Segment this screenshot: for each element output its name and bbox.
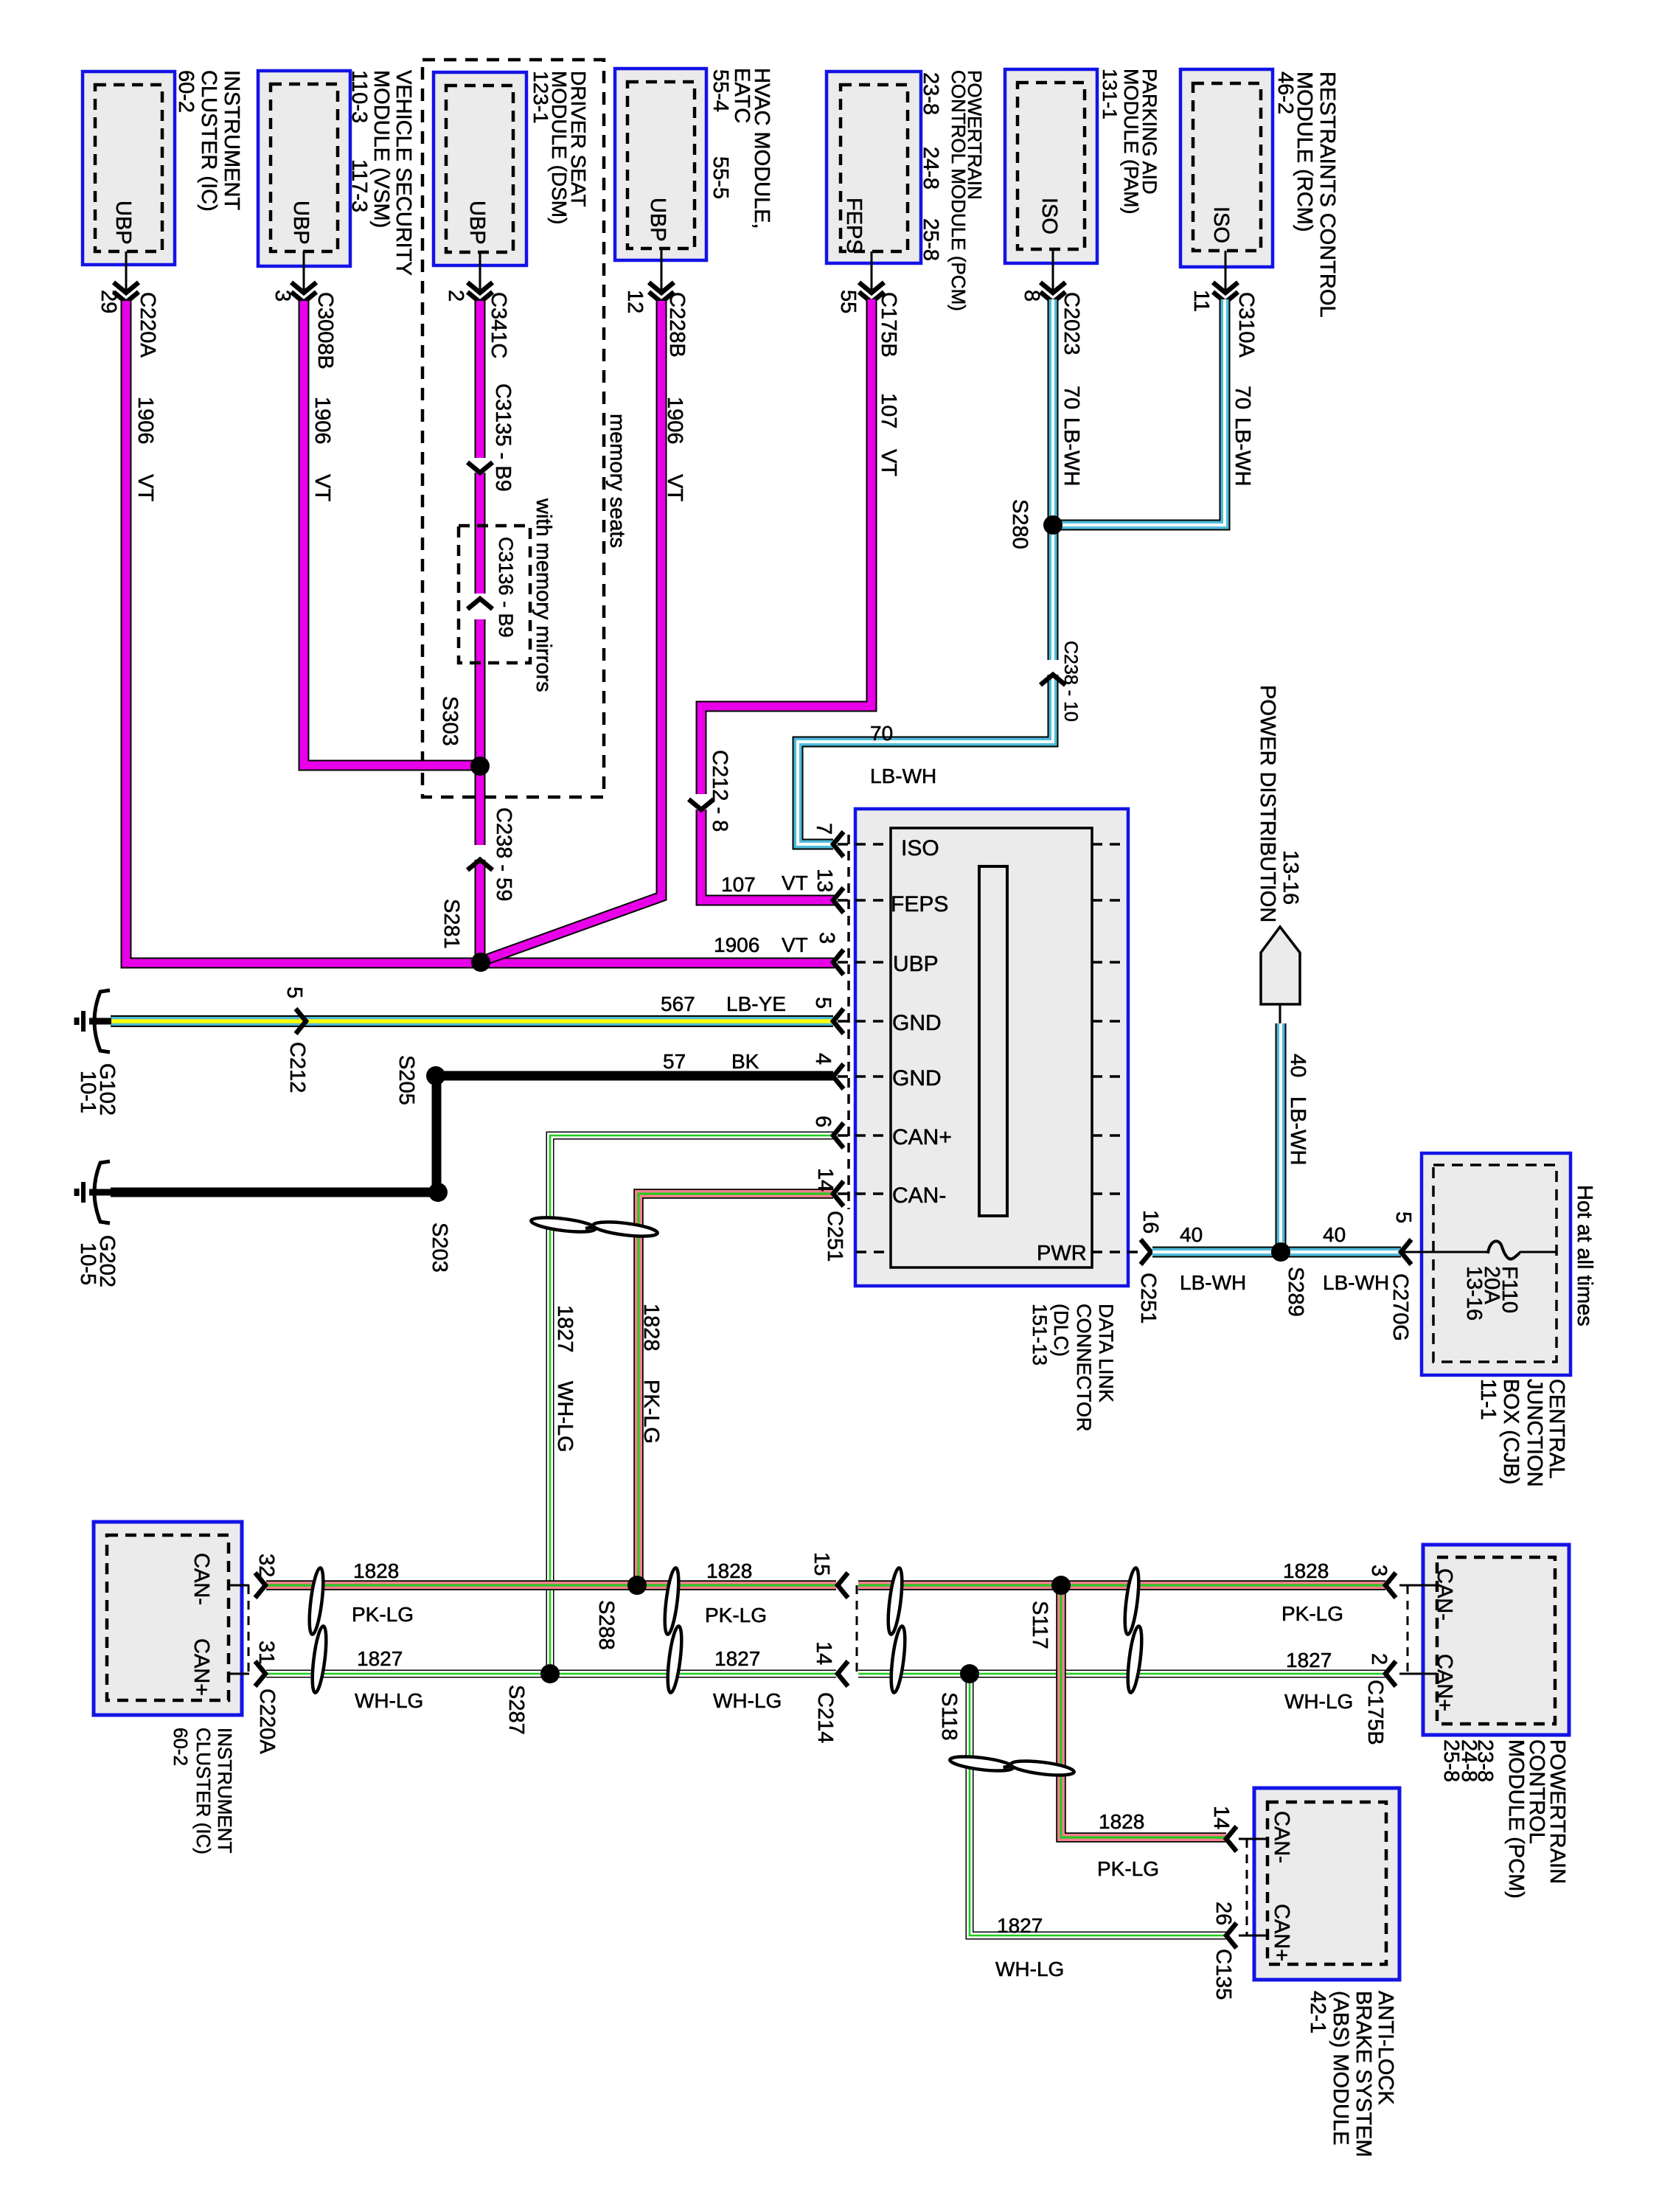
pin 12 / connector C228B stub+arrow	[623, 248, 689, 358]
svg-text:S118: S118	[937, 1692, 961, 1741]
svg-text:BRAKE SYSTEM: BRAKE SYSTEM	[1352, 1991, 1375, 2157]
svg-text:CAN-: CAN-	[189, 1553, 213, 1605]
svg-text:10-5: 10-5	[76, 1242, 100, 1285]
svg-text:LB-YE: LB-YE	[726, 992, 786, 1015]
svg-text:S205: S205	[394, 1055, 418, 1105]
svg-text:GND: GND	[892, 1011, 942, 1035]
twisted-pair symbol on vertical CAN pair	[530, 1215, 596, 1235]
svg-text:CAN-: CAN-	[892, 1183, 946, 1208]
svg-text:JUNCTION: JUNCTION	[1523, 1379, 1546, 1487]
wire: circuit 57 BK from S205 to DLC GND pin4	[436, 1050, 835, 1076]
svg-text:with memory mirrors: with memory mirrors	[532, 498, 555, 692]
svg-text:1828: 1828	[353, 1559, 399, 1582]
svg-text:14: 14	[1209, 1806, 1233, 1829]
svg-text:57: 57	[663, 1050, 686, 1073]
svg-text:WH-LG: WH-LG	[995, 1958, 1064, 1980]
module U9: INSTRUMENT CLUSTER (IC) bottom, connector C220A	[94, 1522, 279, 1854]
svg-text:C310A: C310A	[1234, 292, 1258, 358]
svg-text:2: 2	[1367, 1653, 1391, 1665]
svg-text:11-1: 11-1	[1476, 1379, 1500, 1420]
splice S118	[937, 1664, 979, 1741]
svg-text:LB-WH: LB-WH	[870, 765, 936, 787]
wire: circuit 1828 PK-LG from DLC CAN- pin14 down to S288	[639, 1168, 837, 1585]
svg-text:55-5: 55-5	[709, 156, 732, 199]
pin 55 / connector C175B stub+arrow	[836, 251, 900, 358]
svg-text:40: 40	[1323, 1223, 1346, 1246]
svg-text:VT: VT	[877, 449, 900, 476]
svg-text:C220A: C220A	[255, 1688, 279, 1754]
svg-text:3: 3	[271, 290, 294, 302]
svg-text:C135: C135	[1211, 1949, 1235, 2000]
svg-text:1827: 1827	[714, 1647, 760, 1670]
wire: circuit 70 LB-WH from RCM pin11 to S280	[1053, 299, 1254, 525]
svg-text:S117: S117	[1028, 1601, 1051, 1649]
wire: circuit 107 VT from PCM FEPS pin55 through C212-8 to DLC FEPS	[689, 299, 900, 900]
wire: circuit 40 LB-WH from DLC PWR pin16 to S289 to C270G	[1152, 1211, 1415, 1341]
dashed option outline: with memory mirrors (C3136)	[459, 498, 555, 692]
svg-text:13-16: 13-16	[1279, 850, 1302, 905]
svg-text:4: 4	[811, 1053, 835, 1065]
svg-text:memory seats: memory seats	[605, 414, 629, 548]
svg-text:32: 32	[254, 1554, 278, 1577]
pin 11 / connector C310A stub+arrow	[1189, 251, 1258, 358]
svg-text:14: 14	[812, 1641, 835, 1665]
svg-text:CONTROL MODULE (PCM): CONTROL MODULE (PCM)	[947, 70, 970, 311]
svg-text:55-4: 55-4	[709, 69, 732, 112]
module U7: RESTRAINTS CONTROL MODULE (RCM)	[1180, 69, 1339, 318]
svg-text:LB-WH: LB-WH	[1180, 1271, 1246, 1294]
svg-text:40: 40	[1180, 1223, 1203, 1246]
svg-text:117-3: 117-3	[347, 159, 371, 212]
svg-text:151-13: 151-13	[1029, 1304, 1051, 1366]
svg-text:C238 - 10: C238 - 10	[1060, 641, 1081, 722]
svg-text:42-1: 42-1	[1306, 1991, 1329, 2034]
module U5: POWERTRAIN CONTROL MODULE (PCM) top	[827, 70, 986, 311]
svg-text:11: 11	[1189, 290, 1213, 312]
svg-text:1827: 1827	[553, 1305, 577, 1353]
module: CENTRAL JUNCTION BOX (CJB) 11-1 with fuse F110 20A	[1422, 1153, 1571, 1375]
svg-text:INSTRUMENT: INSTRUMENT	[220, 70, 243, 210]
svg-text:UBP: UBP	[111, 201, 135, 245]
module U6: PARKING AID MODULE (PAM)	[1005, 69, 1161, 263]
svg-text:60-2: 60-2	[174, 70, 198, 113]
splice S287	[504, 1664, 560, 1735]
ground G102 10-1	[76, 990, 119, 1116]
svg-text:LB-WH: LB-WH	[1231, 417, 1254, 486]
svg-text:CENTRAL: CENTRAL	[1545, 1379, 1568, 1478]
pin 3 / connector C3008B stub+arrow	[271, 251, 337, 369]
svg-text:5: 5	[811, 997, 835, 1009]
svg-text:C220A: C220A	[136, 292, 159, 358]
wire: 1828 PK-LG bus, IC2 to C214	[266, 1552, 848, 1626]
svg-text:1906: 1906	[310, 397, 334, 445]
svg-text:ISO: ISO	[1037, 198, 1061, 234]
wire: circuit 70 LB-WH from PAM pin8 through S280, C238-10 to DLC ISO	[798, 299, 1083, 844]
DLC pin row GND	[833, 1064, 1127, 1089]
svg-text:567: 567	[661, 992, 695, 1015]
svg-text:MODULE (PAM): MODULE (PAM)	[1120, 69, 1142, 215]
DLC pin row ISO	[833, 832, 1127, 857]
svg-text:C238 - 59: C238 - 59	[492, 807, 515, 901]
svg-text:WH-LG: WH-LG	[1284, 1690, 1353, 1713]
svg-text:C270G: C270G	[1388, 1273, 1412, 1341]
svg-text:PK-LG: PK-LG	[705, 1604, 767, 1627]
pin 29 / connector C220A stub+arrow	[97, 251, 159, 358]
svg-text:14: 14	[813, 1168, 837, 1192]
svg-text:3: 3	[815, 932, 838, 944]
wire: BK from S205 down to S203 and to ground G202	[111, 1076, 438, 1192]
svg-text:EATC: EATC	[730, 68, 754, 123]
twisted-pair symbols on bus	[307, 1567, 326, 1635]
svg-text:S203: S203	[428, 1222, 451, 1273]
svg-text:1827: 1827	[357, 1647, 403, 1670]
wire: circuit 1827 WH-LG from DLC CAN+ pin6 down to S287	[550, 1116, 835, 1674]
wire: circuit 40 LB-WH from power distribution to S289	[1281, 1023, 1310, 1252]
DLC pin row GND	[833, 1009, 1127, 1034]
svg-text:WH-LG: WH-LG	[355, 1689, 423, 1712]
svg-text:1906: 1906	[663, 397, 686, 445]
svg-text:CAN-: CAN-	[1433, 1568, 1456, 1621]
module U10: POWERTRAIN CONTROL MODULE (PCM) bottom, connector C175B	[1399, 1545, 1569, 1899]
svg-text:25-8: 25-8	[919, 218, 942, 261]
svg-text:GND: GND	[892, 1066, 942, 1091]
wire: circuit 1906 VT from VSM pin3 to S303	[304, 301, 480, 765]
svg-text:ISO: ISO	[1209, 206, 1233, 243]
svg-text:1828: 1828	[1283, 1559, 1329, 1582]
svg-text:UBP: UBP	[465, 201, 489, 245]
svg-text:8: 8	[1020, 290, 1043, 302]
svg-text:MODULE (VSM): MODULE (VSM)	[369, 70, 393, 228]
module U11: ANTI-LOCK BRAKE SYSTEM (ABS) MODULE 42-1, connector C135	[1239, 1788, 1399, 2157]
DLC pin row FEPS	[833, 888, 1127, 913]
svg-text:CONNECTOR: CONNECTOR	[1073, 1304, 1095, 1432]
svg-text:PK-LG: PK-LG	[352, 1603, 414, 1626]
svg-text:C2023: C2023	[1060, 292, 1083, 355]
svg-text:110-3: 110-3	[347, 70, 371, 123]
svg-text:31: 31	[254, 1641, 278, 1664]
svg-text:70: 70	[1231, 386, 1254, 409]
pin 8 / connector C2023 stub+arrow	[1020, 249, 1083, 355]
svg-text:24-8: 24-8	[919, 147, 942, 189]
svg-text:2: 2	[444, 290, 467, 302]
module U8: DATA LINK CONNECTOR (DLC) 151-13	[855, 809, 1128, 1286]
svg-text:INSTRUMENT: INSTRUMENT	[214, 1728, 236, 1854]
svg-text:S280: S280	[1008, 499, 1032, 549]
wire: circuit 1906 VT from IC pin29 to S281 to DLC UBP	[126, 301, 838, 963]
svg-text:WH-LG: WH-LG	[553, 1381, 577, 1453]
svg-text:15: 15	[810, 1552, 833, 1576]
wire: circuit 1906 VT from HVAC pin12 to S281 (diagonal)	[481, 301, 686, 961]
DLC pin name labels	[891, 836, 1087, 1265]
svg-text:26: 26	[1211, 1902, 1235, 1925]
svg-text:S281: S281	[439, 899, 463, 949]
svg-text:29: 29	[97, 290, 120, 313]
svg-text:46-2: 46-2	[1273, 72, 1297, 114]
svg-text:16: 16	[1138, 1210, 1162, 1234]
svg-text:C214: C214	[813, 1692, 837, 1743]
splice S117	[1028, 1576, 1071, 1649]
svg-text:CLUSTER (IC): CLUSTER (IC)	[192, 1728, 215, 1854]
svg-text:1827: 1827	[1286, 1649, 1332, 1672]
svg-text:C175B: C175B	[1363, 1680, 1387, 1745]
splice S280	[1008, 499, 1062, 549]
svg-text:VT: VT	[310, 474, 334, 501]
svg-text:LB-WH: LB-WH	[1286, 1096, 1310, 1165]
svg-text:1827: 1827	[997, 1914, 1043, 1937]
svg-text:VT: VT	[663, 474, 686, 501]
svg-text:123-1: 123-1	[529, 71, 552, 124]
CJB title	[1476, 1379, 1568, 1487]
svg-text:5: 5	[1391, 1211, 1415, 1223]
svg-text:PK-LG: PK-LG	[1281, 1602, 1343, 1625]
svg-text:CAN+: CAN+	[892, 1125, 952, 1150]
svg-text:VEHICLE SECURITY: VEHICLE SECURITY	[392, 70, 415, 276]
wire: 1828 PK-LG drop from S117 to ABS CAN- pin14	[1061, 1584, 1237, 1880]
svg-text:C175B: C175B	[877, 292, 900, 358]
wire: circuit 567 LB-YE from G102 through C212 to DLC GND pin5	[111, 987, 835, 1093]
svg-text:C212 - 8: C212 - 8	[708, 750, 731, 832]
svg-text:S288: S288	[594, 1600, 618, 1650]
svg-text:60-2: 60-2	[170, 1728, 192, 1766]
svg-text:(ABS) MODULE: (ABS) MODULE	[1329, 1991, 1352, 2145]
svg-text:10-1: 10-1	[76, 1071, 100, 1113]
dashed option outline: memory seats	[422, 60, 629, 797]
svg-text:C251: C251	[823, 1211, 846, 1262]
svg-text:12: 12	[623, 290, 647, 313]
wire: 1827 WH-LG bus, IC2 to C214	[266, 1559, 848, 1712]
svg-text:1906: 1906	[133, 397, 157, 445]
DLC connector C251 dashed boundary (left)	[847, 835, 850, 1209]
svg-text:C341C: C341C	[487, 292, 510, 358]
svg-text:13: 13	[813, 869, 836, 892]
module U4: HVAC MODULE, EATC	[615, 68, 773, 260]
svg-text:FEPS: FEPS	[842, 198, 866, 254]
svg-text:UBP: UBP	[893, 952, 939, 976]
svg-text:VT: VT	[782, 872, 808, 894]
svg-text:1828: 1828	[706, 1559, 752, 1582]
DLC pin row UBP	[833, 950, 1127, 975]
svg-text:PK-LG: PK-LG	[1097, 1857, 1159, 1880]
svg-text:PWR: PWR	[1037, 1242, 1087, 1265]
svg-text:C212: C212	[285, 1042, 309, 1093]
svg-text:C3136 - B9: C3136 - B9	[495, 537, 517, 638]
svg-text:7: 7	[812, 823, 835, 835]
svg-text:6: 6	[811, 1116, 835, 1127]
svg-text:ISO: ISO	[901, 836, 939, 860]
svg-text:S287: S287	[504, 1685, 528, 1735]
wire: 1827 WH-LG drop from S118 to ABS CAN+ pin26	[970, 1674, 1237, 2000]
splice S289	[1271, 1242, 1307, 1317]
svg-text:S289: S289	[1284, 1267, 1307, 1317]
svg-text:25-8: 25-8	[1439, 1739, 1463, 1782]
module U3: DRIVER SEAT MODULE (DSM)	[434, 71, 590, 265]
svg-text:107: 107	[877, 393, 900, 428]
svg-text:C251: C251	[1136, 1273, 1160, 1324]
svg-text:CAN+: CAN+	[1270, 1904, 1293, 1961]
svg-text:POWER DISTRIBUTION: POWER DISTRIBUTION	[1256, 685, 1279, 922]
DLC pin row CAN-	[833, 1181, 1127, 1206]
wire: 1827 WH-LG bus, C214 to PCM CAN+ (through S118)	[858, 1649, 1396, 1745]
svg-text:ANTI-LOCK: ANTI-LOCK	[1374, 1991, 1397, 2105]
svg-text:MODULE (PCM): MODULE (PCM)	[1504, 1739, 1528, 1899]
svg-text:1828: 1828	[639, 1304, 663, 1352]
in-line connector C214 dashed boundary	[813, 1585, 857, 1743]
svg-text:131-1: 131-1	[1099, 69, 1121, 119]
svg-text:3: 3	[1367, 1565, 1391, 1576]
module U1: INSTRUMENT CLUSTER (IC) 60-2	[83, 70, 243, 265]
splice S281	[439, 899, 490, 972]
DLC PWR pin row 16	[856, 1210, 1162, 1265]
svg-text:CLUSTER (IC): CLUSTER (IC)	[197, 70, 220, 212]
svg-text:1906: 1906	[714, 933, 759, 956]
splice S303	[438, 696, 490, 776]
power distribution feed symbol 13-16	[1256, 685, 1302, 1023]
svg-text:C3135 - B9: C3135 - B9	[491, 383, 515, 492]
svg-text:WH-LG: WH-LG	[713, 1689, 782, 1712]
svg-text:BK: BK	[731, 1050, 759, 1073]
svg-text:S303: S303	[438, 696, 462, 746]
svg-text:VT: VT	[133, 474, 157, 501]
svg-text:70: 70	[1060, 386, 1083, 409]
pin 2 / connector C341C stub+arrow	[444, 252, 510, 358]
module U2: VEHICLE SECURITY MODULE (VSM)	[258, 70, 415, 276]
DLC pin row CAN+	[833, 1123, 1127, 1148]
svg-text:PK-LG: PK-LG	[639, 1380, 663, 1444]
svg-text:55: 55	[836, 290, 860, 313]
svg-text:RESTRAINTS CONTROL: RESTRAINTS CONTROL	[1315, 72, 1339, 318]
svg-text:DATA LINK: DATA LINK	[1095, 1304, 1117, 1402]
svg-text:107: 107	[721, 873, 756, 896]
splice S203	[428, 1183, 451, 1273]
svg-text:LB-WH: LB-WH	[1323, 1271, 1389, 1294]
svg-text:70: 70	[870, 722, 893, 745]
svg-text:Hot at all times: Hot at all times	[1573, 1185, 1596, 1326]
svg-text:UBP: UBP	[289, 201, 313, 245]
svg-text:CAN-: CAN-	[1270, 1811, 1293, 1863]
svg-text:VT: VT	[782, 933, 808, 956]
wire: circuit 1906 VT from DSM pin2 through C3135/C3136 to S303/S281	[467, 301, 517, 961]
svg-text:C228B: C228B	[665, 292, 689, 358]
ground G202 10-5	[76, 1161, 119, 1287]
svg-text:40: 40	[1286, 1054, 1310, 1077]
svg-text:(DLC): (DLC)	[1050, 1304, 1072, 1357]
fuse F110 20A 13-16	[1401, 1241, 1557, 1321]
DLC title: DATA LINK CONNECTOR (DLC) 151-13	[1029, 1304, 1117, 1432]
svg-text:5: 5	[282, 987, 306, 998]
svg-text:CAN+: CAN+	[189, 1638, 213, 1696]
svg-text:CAN+: CAN+	[1433, 1654, 1456, 1711]
splice S288	[594, 1576, 647, 1650]
wire: 1828 PK-LG bus, C214 to PCM CAN- (through S117)	[858, 1559, 1396, 1625]
DLC C251 labels	[823, 1211, 1160, 1324]
svg-text:UBP: UBP	[646, 198, 669, 242]
svg-text:23-8: 23-8	[919, 72, 942, 115]
svg-text:1828: 1828	[1099, 1810, 1144, 1833]
svg-text:FEPS: FEPS	[891, 892, 948, 917]
splice S205	[394, 1055, 445, 1105]
svg-text:C3008B: C3008B	[313, 292, 337, 369]
svg-text:LB-WH: LB-WH	[1060, 417, 1083, 486]
svg-text:13-16: 13-16	[1462, 1266, 1486, 1321]
svg-text:BOX (CJB): BOX (CJB)	[1499, 1379, 1523, 1484]
